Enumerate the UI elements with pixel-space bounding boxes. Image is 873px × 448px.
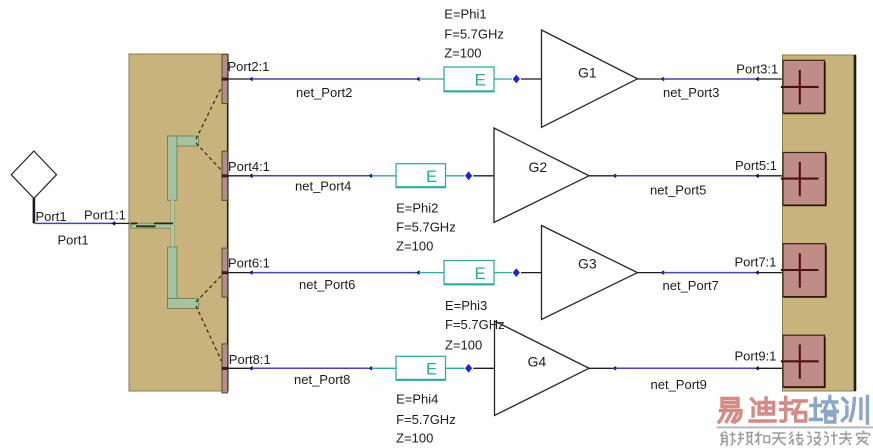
tick row4 right [755,366,759,371]
watermark small char zhuan [839,431,852,445]
wire to antenna port9 [758,367,783,369]
antenna array layout component body [783,55,856,391]
svg-text:net_Port6: net_Port6 [299,277,355,292]
antenna element 1 cross [781,70,819,105]
svg-text:net_Port3: net_Port3 [663,85,719,100]
svg-text:Z=100: Z=100 [445,338,482,353]
divider pin 4 [222,151,229,200]
svg-text:Port6:1: Port6:1 [228,255,270,270]
wire junction to G2 [473,175,494,177]
watermark small char pin [738,432,754,446]
svg-text:Port9:1: Port9:1 [735,349,777,364]
tick row4 left [249,366,253,371]
tick row2 left [249,174,253,179]
G1 out stub [638,78,661,80]
tick row1 G1 out [660,77,664,82]
phase shifter PS3 box [444,261,494,285]
E out stub row4 [446,367,465,369]
antenna element pad 3 [783,244,827,297]
svg-text:F=5.7GHz: F=5.7GHz [444,27,504,42]
dashed branch to pin6 [196,275,222,302]
amplifier G1 [542,30,638,127]
phase shifter PS1 box [444,67,494,92]
antenna element pad 1 [783,60,826,113]
layout component X1 divider body [129,54,228,391]
svg-text:Port7:1: Port7:1 [735,254,777,269]
svg-text:Port1: Port1 [36,209,67,224]
svg-text:E: E [426,167,437,186]
junction diamond row3 [513,268,520,277]
tick row2 right [755,174,759,179]
antenna element pad 2 [783,153,827,206]
amplifier G2 [494,128,589,223]
tick row3 G3 out [660,270,664,275]
wire dashes inside divider [131,223,174,226]
svg-text:Port4:1: Port4:1 [228,159,270,174]
watermark small char xian [789,432,804,446]
E pin stub row2 [372,175,397,177]
tick row1 right [755,77,759,82]
wire pin4 stub [228,175,249,177]
watermark small char ji [824,432,838,446]
svg-text:Port8:1: Port8:1 [229,352,271,367]
wire junction to G4 [473,367,494,369]
antenna element 3 cross [781,253,819,287]
net_Port6 wire [252,272,416,274]
wire pin6 stub [228,272,249,274]
svg-text:Z=100: Z=100 [444,46,481,61]
phase shifter PS2 box [396,164,446,188]
tick row2 E in [368,174,372,179]
junction diamond row1 [513,75,520,84]
wire junction to G1 [521,78,542,80]
junction diamond row4 [465,364,472,373]
tick row3 left [249,270,253,275]
wire to antenna port7 [758,272,783,274]
G3 out stub [638,272,661,274]
watermark small char she2 [807,432,821,446]
dashed branch to pin2 [196,86,222,139]
watermark big char 3 tuo [781,398,807,422]
net_Port9 wire [615,367,755,369]
svg-text:E=Phi3: E=Phi3 [445,298,487,313]
svg-text:net_Port8: net_Port8 [294,372,350,387]
svg-text:G4: G4 [528,354,547,370]
watermark small char he [755,432,770,446]
svg-text:Port2:1: Port2:1 [228,59,270,74]
svg-text:E=Phi4: E=Phi4 [396,392,438,407]
watermark big char 1 yi [719,399,741,423]
watermark small char she [721,432,736,447]
svg-text:E: E [426,360,437,379]
svg-text:net_Port9: net_Port9 [651,377,707,392]
svg-text:Port5:1: Port5:1 [735,158,777,173]
svg-text:F=5.7GHz: F=5.7GHz [445,317,505,332]
tick row4 E in [368,366,372,371]
junction diamond row2 [465,171,472,180]
svg-text:net_Port5: net_Port5 [650,182,706,197]
tick row4 G4 out [612,366,616,371]
tick port1 wire [111,221,115,226]
E out stub row1 [494,78,512,80]
watermark small char tian [772,433,786,445]
G4 out stub [589,367,613,369]
divider pin 2 [222,55,229,104]
svg-text:Z=100: Z=100 [396,238,433,253]
wire to antenna port5 [758,175,783,177]
svg-text:net_Port7: net_Port7 [663,278,719,293]
antenna element 4 cross [781,345,819,379]
G2 out stub [589,175,613,177]
net_Port4 wire [252,175,369,177]
svg-text:Z=100: Z=100 [396,431,433,446]
svg-text:E: E [475,264,486,283]
svg-text:G3: G3 [578,255,597,271]
tick row3 right [755,270,759,275]
dashed branch to pin8 [196,306,222,362]
net_Port3 wire [663,78,755,80]
phase shifter PS4 box [396,356,446,380]
tick row3 E in [416,270,420,275]
microstrip feed line (sage green) [131,136,199,309]
E pin stub row3 [419,272,444,274]
port P1 diamond symbol [11,151,56,223]
svg-text:Port1:1: Port1:1 [84,208,126,223]
svg-text:E=Phi2: E=Phi2 [396,201,438,216]
watermark big char 5 xun [842,397,867,424]
E pin stub row1 [419,78,444,80]
svg-text:net_Port4: net_Port4 [295,179,351,194]
antenna element 2 cross [781,162,819,196]
E out stub row3 [494,272,512,274]
E pin stub row4 [372,367,397,369]
watermark underline [717,426,873,428]
wire port1 to divider [35,222,130,224]
net_Port5 wire [615,175,755,177]
wire to antenna port3 [758,78,783,80]
svg-text:G1: G1 [578,65,597,81]
wire pin8 stub [228,367,249,369]
wire pin2 stub [228,78,249,80]
amplifier G3 [542,226,638,320]
svg-text:F=5.7GHz: F=5.7GHz [396,220,456,235]
watermark big char 4 pei [810,397,837,423]
svg-text:F=5.7GHz: F=5.7GHz [396,412,456,427]
dashed branch to pin4 [196,143,222,171]
amplifier G4 [495,321,590,416]
net_Port2 wire [252,78,416,80]
tick row1 E in [416,77,420,82]
wire junction to G3 [521,272,542,274]
tick row2 G2 out [612,174,616,179]
svg-text:net_Port2: net_Port2 [296,85,352,100]
net_Port8 wire [252,367,369,369]
watermark big char 2 di [750,398,775,421]
divider pin 6 [222,248,229,297]
antenna element pad 4 [783,335,826,387]
svg-text:Port1: Port1 [58,233,89,248]
net_Port7 wire [663,272,755,274]
divider pin 8 [222,344,229,393]
tick row1 left [249,77,253,82]
E out stub row2 [446,175,465,177]
svg-text:E: E [475,71,486,90]
svg-text:Port3:1: Port3:1 [736,61,778,76]
svg-text:G2: G2 [529,159,548,175]
watermark small char jia [857,431,870,445]
svg-text:E=Phi1: E=Phi1 [444,6,486,21]
